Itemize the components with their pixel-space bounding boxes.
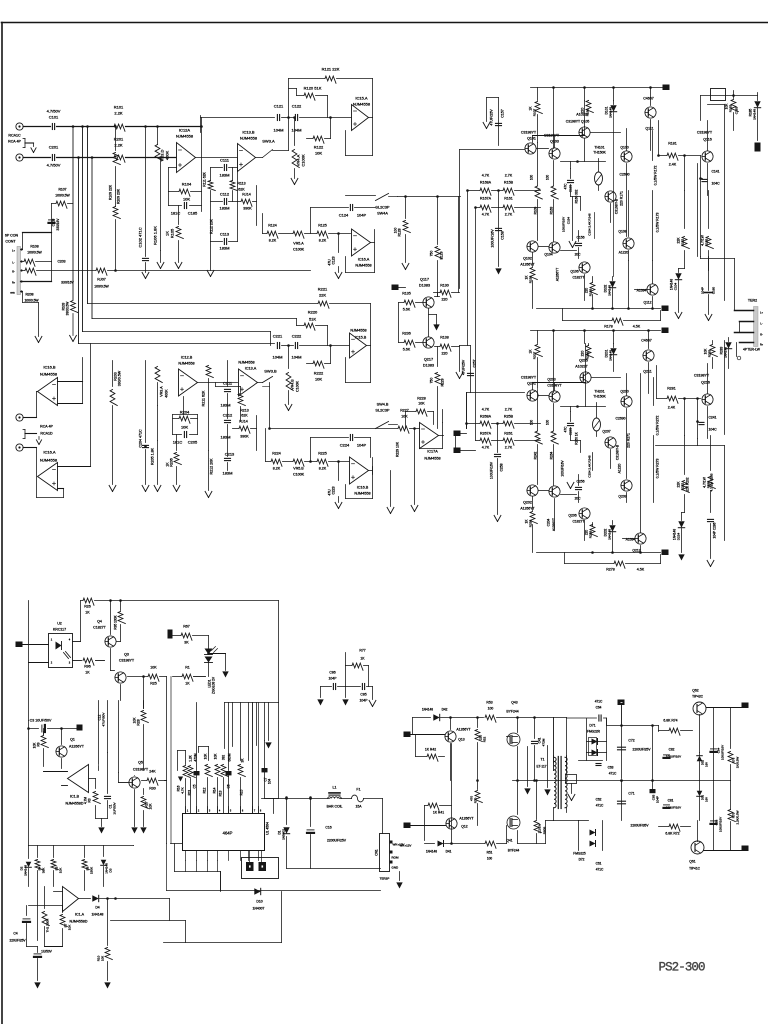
transistor Q209 bbox=[618, 463, 633, 502]
svg-text:C3198Y-B: C3198Y-B bbox=[616, 444, 620, 460]
svg-text:R282: R282 bbox=[681, 483, 685, 491]
svg-text:D3: D3 bbox=[109, 868, 113, 872]
rectifier D71 FMG22R bbox=[587, 719, 607, 761]
wire vertical drop A bbox=[72, 125, 75, 299]
svg-text:47U: 47U bbox=[328, 489, 332, 496]
svg-text:TER3P: TER3P bbox=[380, 877, 390, 881]
diode D102 bbox=[604, 277, 616, 309]
diode D101 bbox=[605, 101, 617, 277]
wire Q117 emitter bbox=[429, 309, 440, 337]
label 4PTER-LW bbox=[743, 348, 761, 352]
resistor R185b bbox=[701, 191, 714, 271]
wire TER2 feeds bbox=[701, 257, 741, 360]
svg-text:C204: C204 bbox=[547, 518, 551, 526]
wire main DC bus bbox=[262, 797, 383, 833]
wire net feed bbox=[345, 653, 347, 666]
svg-text:C5: C5 bbox=[193, 784, 197, 788]
resistor R225 bbox=[317, 452, 350, 471]
svg-text:R221: R221 bbox=[318, 287, 328, 292]
capacitor C85 bbox=[346, 684, 373, 703]
capacitor C41 bbox=[532, 716, 546, 782]
wire net C211 bbox=[216, 383, 241, 387]
wire ch2 R202 col bbox=[686, 473, 714, 491]
svg-text:1N4148: 1N4148 bbox=[92, 913, 104, 917]
capacitor C101 bbox=[47, 109, 61, 130]
resistor R101 bbox=[114, 105, 125, 132]
svg-text:Q4: Q4 bbox=[97, 620, 102, 624]
svg-text:1K: 1K bbox=[185, 682, 190, 686]
DIP pin numbers bbox=[187, 810, 262, 813]
svg-text:R211 62K: R211 62K bbox=[202, 390, 206, 406]
resistor R103 bbox=[62, 301, 78, 342]
resistor R173 bbox=[656, 212, 660, 232]
svg-text:C72: C72 bbox=[628, 739, 634, 743]
svg-text:R212 20K: R212 20K bbox=[210, 458, 214, 475]
svg-text:104P: 104P bbox=[357, 213, 367, 218]
capacitor C223 bbox=[328, 460, 342, 508]
svg-text:R163: R163 bbox=[550, 206, 554, 214]
svg-text:C256: C256 bbox=[576, 480, 584, 484]
svg-text:C2690: C2690 bbox=[620, 173, 630, 177]
border frame top line bbox=[2, 22, 768, 24]
svg-text:C213: C213 bbox=[225, 452, 235, 457]
svg-text:NJM4558: NJM4558 bbox=[353, 102, 371, 107]
svg-text:183M: 183M bbox=[219, 206, 229, 211]
svg-text:Q200: Q200 bbox=[620, 390, 628, 394]
resistor R248 bbox=[588, 453, 593, 478]
capacitor C201 bbox=[47, 145, 61, 168]
svg-text:100/0.5W: 100/0.5W bbox=[27, 251, 42, 255]
resistor R258 bbox=[503, 408, 541, 429]
svg-text:D4: D4 bbox=[95, 906, 99, 910]
svg-text:10K: 10K bbox=[315, 377, 322, 382]
svg-text:471C: 471C bbox=[596, 868, 604, 872]
svg-text:R109 22K: R109 22K bbox=[109, 184, 113, 200]
capacitor C82 bbox=[664, 748, 682, 759]
resistor R227 bbox=[398, 409, 420, 434]
transistor Q211 bbox=[641, 339, 654, 394]
svg-text:RCA 4P: RCA 4P bbox=[40, 425, 53, 429]
resistor R282 bbox=[677, 436, 690, 513]
svg-text:NJM4558: NJM4558 bbox=[350, 329, 366, 333]
svg-text:2.2K/0.5W: 2.2K/0.5W bbox=[736, 810, 740, 824]
op-amp IC13B bbox=[238, 130, 258, 172]
svg-text:R-: R- bbox=[760, 334, 763, 337]
transistor Q111 bbox=[643, 97, 656, 151]
svg-text:C123: C123 bbox=[332, 256, 336, 264]
resistor R296 bbox=[581, 344, 594, 360]
svg-text:15A: 15A bbox=[355, 805, 362, 809]
trimmer VR4B bbox=[285, 344, 299, 410]
svg-text:1K: 1K bbox=[85, 671, 90, 675]
svg-text:VR4.B: VR4.B bbox=[291, 379, 295, 390]
resistor R8 bbox=[82, 846, 93, 891]
svg-text:150K: 150K bbox=[90, 866, 94, 874]
svg-text:100/0.5W: 100/0.5W bbox=[24, 299, 39, 303]
resistor R135 bbox=[399, 292, 423, 312]
diode D203 bbox=[720, 338, 732, 369]
svg-text:C204 471C: C204 471C bbox=[139, 429, 143, 448]
svg-text:TH150K: TH150K bbox=[593, 395, 606, 399]
svg-text:2200UF/35V: 2200UF/35V bbox=[631, 824, 650, 828]
zener D52 bbox=[697, 753, 709, 781]
resistor R76 bbox=[728, 708, 739, 781]
wire ch1 base bus bbox=[460, 150, 525, 289]
svg-text:R+: R+ bbox=[12, 282, 16, 285]
svg-text:C1827T: C1827T bbox=[572, 520, 584, 524]
svg-text:8.2K: 8.2K bbox=[273, 467, 281, 471]
resistor R268A bbox=[465, 408, 502, 429]
resistor R235 bbox=[399, 303, 423, 352]
wire R207 bus bbox=[22, 270, 311, 272]
svg-text:100UF/16V: 100UF/16V bbox=[719, 817, 723, 832]
svg-text:2.4K: 2.4K bbox=[668, 406, 676, 410]
svg-text:D1383: D1383 bbox=[423, 364, 434, 368]
resistor R128 bbox=[394, 195, 411, 269]
svg-text:8.2K: 8.2K bbox=[269, 239, 277, 243]
switch SW4B bbox=[375, 403, 397, 429]
svg-text:TH150K: TH150K bbox=[593, 151, 606, 155]
svg-text:4.7K: 4.7K bbox=[482, 174, 490, 178]
svg-text:Q100: Q100 bbox=[620, 146, 628, 150]
transistor Q212 bbox=[623, 374, 647, 553]
capacitor C84 bbox=[711, 708, 725, 781]
svg-text:ZGGL08 2V: ZGGL08 2V bbox=[212, 676, 216, 694]
resistor R202c bbox=[530, 390, 543, 485]
svg-text:1K/0.5W: 1K/0.5W bbox=[736, 757, 740, 769]
svg-text:392: 392 bbox=[222, 755, 226, 761]
wire C258b bbox=[561, 460, 574, 489]
svg-text:R26: R26 bbox=[84, 605, 91, 609]
svg-text:4.7K: 4.7K bbox=[482, 408, 490, 412]
svg-text:464P: 464P bbox=[223, 831, 233, 836]
op-amp IC16Aa bbox=[352, 229, 372, 268]
svg-text:220 R271: 220 R271 bbox=[627, 433, 631, 448]
wire hook C5R12 bbox=[199, 747, 209, 761]
transistor Q117 bbox=[419, 278, 434, 309]
svg-text:C141: C141 bbox=[711, 170, 719, 174]
svg-text:2.7K: 2.7K bbox=[505, 213, 513, 217]
capacitor C156 bbox=[575, 231, 585, 259]
diode D4 bbox=[79, 895, 170, 916]
svg-text:KRC117: KRC117 bbox=[53, 628, 66, 632]
svg-text:C156: C156 bbox=[576, 236, 584, 240]
wire array feeds bbox=[253, 703, 259, 814]
svg-text:16V: 16V bbox=[705, 762, 709, 767]
svg-text:R25: R25 bbox=[150, 682, 157, 686]
svg-text:IC15.B: IC15.B bbox=[355, 336, 367, 340]
wire IC15B input bbox=[79, 344, 294, 346]
capacitor C86 bbox=[321, 671, 346, 690]
svg-text:NJM4558: NJM4558 bbox=[178, 362, 194, 366]
svg-text:10K: 10K bbox=[59, 867, 63, 873]
transistor Q103 bbox=[537, 134, 561, 160]
svg-text:C1827T: C1827T bbox=[93, 626, 107, 630]
svg-text:R206: R206 bbox=[170, 458, 174, 467]
svg-text:IC13.A: IC13.A bbox=[245, 367, 257, 371]
svg-text:1K: 1K bbox=[165, 231, 170, 236]
svg-text:R160 392: R160 392 bbox=[575, 189, 579, 203]
svg-text:183M: 183M bbox=[220, 403, 230, 408]
svg-text:NJM4558: NJM4558 bbox=[354, 492, 370, 496]
svg-text:220UF/25V: 220UF/25V bbox=[9, 939, 26, 943]
svg-text:SL2C3P: SL2C3P bbox=[375, 206, 390, 210]
svg-text:C100K: C100K bbox=[293, 248, 305, 252]
svg-text:220: 220 bbox=[442, 352, 448, 356]
capacitor C224 bbox=[309, 435, 370, 463]
svg-text:100: 100 bbox=[487, 857, 493, 861]
wire IC1B net bbox=[96, 766, 108, 834]
resistor R12 bbox=[203, 753, 213, 814]
power rail ch2 bbox=[531, 329, 661, 392]
op-amp IC12A bbox=[176, 128, 196, 173]
resistor R51 bbox=[485, 841, 507, 860]
svg-text:C154 2.4K R146: C154 2.4K R146 bbox=[588, 213, 592, 236]
resistor R204 feedback bbox=[173, 397, 198, 435]
resistor R104 feedback bbox=[169, 118, 202, 212]
resistor R26 bbox=[81, 598, 279, 614]
svg-text:Q3: Q3 bbox=[124, 653, 129, 657]
svg-text:471C: 471C bbox=[609, 772, 617, 776]
wire IC16Bb feedback bbox=[346, 458, 373, 499]
resistor R120 bbox=[289, 86, 328, 118]
wire lower bus bbox=[29, 721, 134, 846]
resistor R256 bbox=[525, 497, 538, 553]
connector CN1 bbox=[375, 834, 412, 872]
svg-text:10K: 10K bbox=[418, 402, 425, 406]
resistor R181 bbox=[657, 121, 700, 167]
svg-text:100UF/16V: 100UF/16V bbox=[562, 217, 566, 232]
wire input bottom bbox=[24, 157, 177, 159]
capacitor C105 bbox=[169, 192, 202, 216]
resistor R122 bbox=[307, 116, 332, 155]
svg-text:R178: R178 bbox=[604, 325, 613, 329]
svg-text:TIP41C: TIP41C bbox=[689, 867, 701, 871]
wire R25 node bbox=[142, 675, 171, 843]
svg-text:8.2K: 8.2K bbox=[319, 467, 327, 471]
svg-text:A1220: A1220 bbox=[619, 251, 629, 255]
svg-text:3: 3 bbox=[69, 661, 71, 665]
svg-text:C63: C63 bbox=[608, 766, 614, 770]
svg-text:IC17A: IC17A bbox=[427, 450, 438, 454]
svg-text:Q209: Q209 bbox=[618, 495, 626, 499]
resistor R7 bbox=[45, 906, 72, 947]
svg-text:R-: R- bbox=[12, 271, 15, 274]
resistor R171 bbox=[620, 191, 629, 237]
svg-text:R228: R228 bbox=[417, 397, 426, 401]
svg-text:R121 22K: R121 22K bbox=[322, 67, 340, 72]
svg-text:A1266YT: A1266YT bbox=[69, 745, 85, 749]
svg-text:104P: 104P bbox=[329, 677, 338, 681]
svg-text:Q205: Q205 bbox=[579, 359, 588, 363]
diode D201 bbox=[605, 344, 617, 372]
svg-text:10K: 10K bbox=[149, 803, 153, 810]
resistor R203 bbox=[109, 361, 121, 492]
capacitor C141 bbox=[699, 156, 720, 257]
svg-text:4.7K: 4.7K bbox=[482, 446, 490, 450]
resistor R113 bbox=[230, 168, 246, 202]
capacitor C222 bbox=[291, 334, 302, 360]
svg-text:C158: C158 bbox=[501, 231, 505, 240]
svg-text:C183: C183 bbox=[735, 107, 739, 115]
svg-text:R120 51K: R120 51K bbox=[304, 86, 322, 91]
terminal EB bbox=[392, 285, 406, 291]
transformer primary wires bbox=[554, 718, 567, 773]
svg-text:R264: R264 bbox=[550, 451, 554, 459]
svg-text:1: 1 bbox=[51, 638, 53, 642]
svg-text:Q104: Q104 bbox=[544, 253, 552, 257]
svg-text:4.7/50V: 4.7/50V bbox=[47, 163, 61, 168]
svg-text:47C: 47C bbox=[564, 426, 568, 433]
svg-text:6.8K R72: 6.8K R72 bbox=[665, 832, 679, 836]
capacitor C12 bbox=[98, 701, 106, 765]
transistor Q200 bbox=[616, 374, 633, 479]
svg-text:R220: R220 bbox=[308, 310, 318, 315]
capacitor C83 bbox=[711, 781, 723, 851]
svg-text:1N4148: 1N4148 bbox=[608, 285, 612, 296]
terminal V+ ch2 bbox=[662, 328, 669, 334]
wire IC13B out to SW3A bbox=[256, 118, 289, 158]
svg-text:R13: R13 bbox=[219, 790, 223, 796]
svg-text:C86: C86 bbox=[329, 671, 335, 675]
svg-text:RCA 4P: RCA 4P bbox=[8, 140, 21, 144]
wire DIP out bbox=[220, 872, 222, 892]
svg-text:22K: 22K bbox=[319, 293, 326, 298]
thermistor TH101 bbox=[593, 146, 606, 191]
capacitor C157 bbox=[483, 98, 504, 146]
svg-text:Q217: Q217 bbox=[424, 358, 433, 362]
svg-text:R60B: R60B bbox=[543, 827, 547, 835]
svg-text:NJM4558: NJM4558 bbox=[176, 134, 194, 139]
border frame left line bbox=[1, 23, 3, 1024]
resistor R229b bbox=[396, 427, 418, 511]
svg-text:ROM: ROM bbox=[392, 856, 400, 860]
svg-text:L+: L+ bbox=[12, 250, 15, 253]
svg-text:R28: R28 bbox=[137, 719, 141, 725]
terminal +out bbox=[707, 703, 749, 709]
resistor R1 bbox=[173, 666, 206, 686]
svg-text:C258: C258 bbox=[500, 463, 504, 471]
svg-text:R229 10K: R229 10K bbox=[396, 441, 400, 457]
svg-text:2.4K: 2.4K bbox=[669, 163, 677, 167]
wire mid vertical2 bbox=[459, 197, 467, 429]
svg-text:1K R42: 1K R42 bbox=[425, 748, 436, 752]
transistor Q3 bbox=[111, 653, 135, 701]
wire C121-C122 bbox=[282, 116, 294, 119]
svg-text:L1: L1 bbox=[333, 786, 337, 790]
svg-text:R168A: R168A bbox=[480, 181, 492, 185]
svg-text:100: 100 bbox=[530, 175, 534, 181]
svg-text:100UF/16V: 100UF/16V bbox=[490, 461, 494, 479]
svg-text:183M: 183M bbox=[220, 435, 230, 440]
svg-text:2.7K: 2.7K bbox=[505, 408, 513, 412]
resistor R220 bbox=[92, 310, 328, 346]
svg-text:8.2K: 8.2K bbox=[319, 239, 327, 243]
svg-text:4.5K: 4.5K bbox=[633, 325, 641, 329]
svg-text:BYF244: BYF244 bbox=[506, 710, 518, 714]
svg-text:VR5.A: VR5.A bbox=[293, 242, 304, 246]
capacitor C154 bbox=[562, 197, 576, 248]
transistor Q4 bbox=[93, 601, 116, 671]
resistor R30 bbox=[142, 770, 167, 791]
svg-text:SW4A: SW4A bbox=[377, 212, 388, 216]
wire top right rail bbox=[701, 91, 758, 121]
svg-text:L-: L- bbox=[12, 262, 14, 265]
wire Q203-Q205 bbox=[533, 372, 586, 391]
resistor R95 bbox=[114, 601, 126, 642]
svg-text:D10: D10 bbox=[256, 900, 262, 904]
terminal OUT ch1 bbox=[662, 306, 669, 312]
svg-text:R224: R224 bbox=[272, 452, 281, 456]
op-amp IC13A bbox=[238, 361, 257, 397]
resistor R221 bbox=[88, 287, 371, 346]
resistor R77 bbox=[346, 649, 369, 687]
capacitor C123 bbox=[328, 232, 342, 278]
resistor R205 bbox=[151, 406, 161, 492]
thermistor TH1 bbox=[42, 887, 49, 947]
resistor R228 bbox=[406, 397, 434, 429]
resistor R283 bbox=[704, 341, 718, 369]
resistor R260 bbox=[575, 431, 581, 452]
jack ground stub bbox=[23, 139, 36, 153]
svg-text:104P: 104P bbox=[357, 443, 367, 448]
trimmer VR5A bbox=[293, 231, 317, 251]
svg-text:Q202: Q202 bbox=[523, 501, 532, 505]
svg-text:R128: R128 bbox=[398, 228, 402, 236]
capacitor C221 bbox=[272, 334, 283, 360]
svg-text:NJM4558: NJM4558 bbox=[355, 264, 371, 268]
wire IC16Aa feedback bbox=[346, 230, 375, 273]
op-amp IC15B bbox=[350, 329, 367, 359]
svg-text:NJM4558: NJM4558 bbox=[40, 372, 58, 377]
center tap box bbox=[566, 775, 577, 801]
resistor R15 bbox=[238, 758, 245, 814]
svg-text:1: 1 bbox=[187, 810, 189, 813]
svg-text:3K: 3K bbox=[241, 758, 245, 763]
wire ch1 right verticals bbox=[683, 105, 724, 301]
resistor R158 bbox=[503, 174, 541, 196]
svg-text:RCA1C: RCA1C bbox=[8, 134, 21, 138]
svg-text:C81: C81 bbox=[668, 799, 674, 803]
resistor R102 bbox=[530, 143, 543, 241]
svg-text:390K: 390K bbox=[240, 435, 249, 439]
svg-text:R229: R229 bbox=[441, 378, 445, 386]
svg-text:C62: C62 bbox=[596, 798, 602, 802]
resistor R111 bbox=[203, 168, 216, 242]
svg-text:473M: 473M bbox=[194, 753, 198, 761]
svg-text:100: 100 bbox=[546, 420, 550, 426]
svg-text:10K: 10K bbox=[204, 753, 208, 760]
resistor R75 bbox=[728, 781, 739, 851]
svg-text:C3198YT: C3198YT bbox=[521, 376, 537, 380]
svg-text:Q62: Q62 bbox=[692, 689, 699, 693]
svg-text:NJM4558: NJM4558 bbox=[240, 136, 258, 141]
svg-text:C4667: C4667 bbox=[641, 339, 652, 343]
svg-text:R260 1K: R260 1K bbox=[575, 431, 579, 444]
svg-text:R108: R108 bbox=[30, 245, 38, 249]
transistor Q13 bbox=[445, 716, 471, 742]
resistor R204c bbox=[546, 404, 559, 486]
jack2 ground stub bbox=[23, 430, 42, 445]
svg-text:100: 100 bbox=[394, 228, 398, 234]
wire smps right join bbox=[0, 0, 2, 2]
wire R+ row bbox=[21, 281, 52, 283]
capacitor C112 bbox=[211, 192, 238, 211]
svg-text:R278: R278 bbox=[606, 568, 615, 572]
DIP bottom pins bbox=[186, 851, 259, 861]
transistor Q201 bbox=[521, 376, 538, 402]
op-amp IC1A bbox=[29, 887, 88, 924]
